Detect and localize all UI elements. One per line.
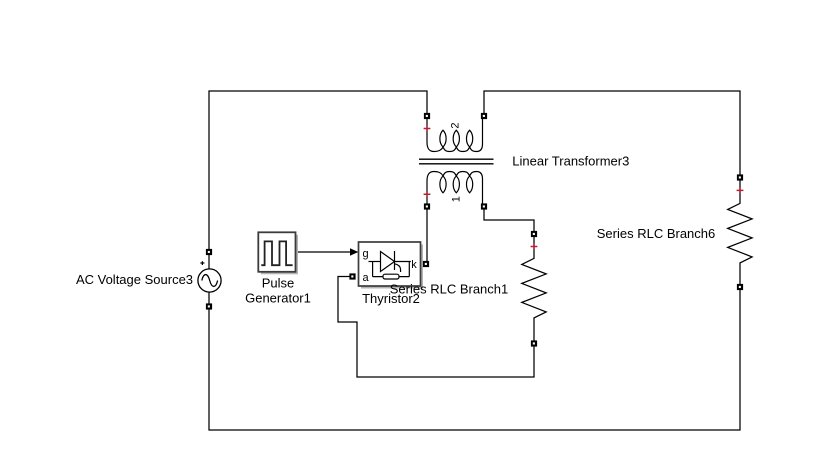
Linear Transformer3 winding 1 left port <box>424 203 430 209</box>
svg-text:Series RLC Branch1: Series RLC Branch1 <box>390 282 509 297</box>
svg-text:Linear Transformer3: Linear Transformer3 <box>512 153 629 168</box>
Linear Transformer3 winding 2 left port <box>424 113 430 119</box>
svg-text:1: 1 <box>450 196 462 202</box>
Series RLC Branch6 top port <box>737 174 743 180</box>
AC Voltage Source3 bottom port <box>206 303 212 309</box>
Thyristor2 snubber bottom wires <box>373 276 410 278</box>
Series RLC Branch1 top port <box>531 231 537 237</box>
Linear Transformer3 winding 2 right port <box>481 113 487 119</box>
Thyristor2 block <box>359 242 421 286</box>
svg-text:k: k <box>411 259 417 271</box>
Thyristor2 snubber right lead <box>408 262 410 277</box>
Thyristor2 block shadow <box>361 245 423 289</box>
AC Voltage Source3 top port <box>206 249 212 255</box>
wire RLC branch1 bottom to thyristor a <box>338 277 534 378</box>
Linear Transformer3 winding 1 right port <box>481 203 487 209</box>
Thyristor2 gate input arrow <box>350 248 358 255</box>
wire pulse generator to thyristor g <box>296 251 350 253</box>
Linear Transformer3 winding 1 coil <box>427 172 483 205</box>
wire winding1 right to RLC branch1 top <box>484 210 534 231</box>
Pulse Generator1 block shadow <box>261 235 298 274</box>
Linear Transformer3 winding 1 left plus <box>424 191 431 197</box>
Pulse Generator1 pulse waveform <box>261 241 292 265</box>
Thyristor2 cathode lead <box>395 261 411 263</box>
svg-text:Series RLC Branch6: Series RLC Branch6 <box>597 226 716 241</box>
Thyristor2 snubber resistor box <box>383 274 399 279</box>
svg-text:Pulse: Pulse <box>262 276 295 291</box>
wire winding1 left to thyristor k <box>426 207 428 261</box>
svg-text:a: a <box>363 272 370 284</box>
AC Voltage Source3 leads <box>208 255 210 304</box>
AC Voltage Source3 sine symbol <box>202 275 218 287</box>
wire bottom bus: RLC branch6 bottom to AC source bottom <box>209 290 740 430</box>
Series RLC Branch1 plus <box>531 243 538 249</box>
Linear Transformer3 winding 2 coil <box>427 119 483 152</box>
svg-text:g: g <box>363 248 369 260</box>
Thyristor2 k port <box>423 261 429 267</box>
svg-text:Generator1: Generator1 <box>245 291 311 306</box>
Series RLC Branch6 plus <box>737 187 744 193</box>
wire top-left bus: AC source top to winding2 left <box>209 91 427 249</box>
Linear Transformer3 core lines <box>419 159 494 164</box>
AC Voltage Source3 polarity plus <box>200 261 204 265</box>
svg-text:2: 2 <box>450 122 462 128</box>
Series RLC Branch6 resistor zigzag <box>728 181 752 285</box>
Series RLC Branch1 bottom port <box>531 340 537 346</box>
Thyristor2 gate curl <box>395 264 401 272</box>
svg-text:AC Voltage Source3: AC Voltage Source3 <box>76 272 193 287</box>
Thyristor2 anode line <box>369 261 381 263</box>
Thyristor2 snubber left lead <box>372 262 374 277</box>
Thyristor2 a port <box>349 273 355 279</box>
wire top-right bus: winding2 right to RLC branch6 top <box>484 91 740 174</box>
Linear Transformer3 winding 2 left plus <box>424 125 431 131</box>
Pulse Generator1 block <box>258 232 295 271</box>
AC Voltage Source3 circle <box>198 269 221 292</box>
Thyristor2 cathode bar <box>394 251 396 270</box>
Thyristor2 diode triangle <box>381 252 395 272</box>
Series RLC Branch6 bottom port <box>737 284 743 290</box>
Series RLC Branch1 resistor zigzag <box>522 237 546 341</box>
